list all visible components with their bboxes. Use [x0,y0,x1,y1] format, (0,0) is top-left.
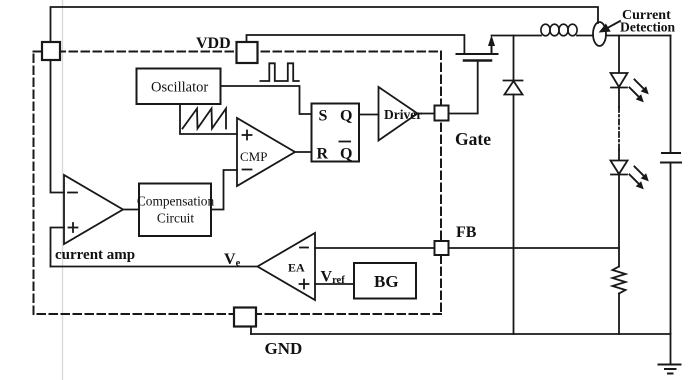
LED D3 [611,161,628,175]
resistor R1 (sense) [613,267,626,294]
wire output node down to capacitor [670,36,672,153]
LED D2 light arrows [630,80,649,102]
block BG bandgap [354,263,416,299]
wire compensation out to CMP minus [211,170,237,210]
svg-text:GND: GND [265,339,303,358]
svg-text:Compensation: Compensation [137,194,215,209]
op-amp EA (error amp) [258,233,316,300]
wire capacitor to ground rail [670,163,672,365]
sawtooth waveform [183,109,227,129]
wire current amp plus input [51,228,65,267]
svg-text:BG: BG [374,272,399,291]
wire EA minus to FB pad [315,247,435,249]
svg-text:CMP: CMP [240,149,267,164]
wire diode to ground rail [513,95,515,335]
wire sense pad to current amp minus input [51,60,65,193]
wire switch node [492,35,542,37]
wire VDD pad to MOSFET source [247,35,465,54]
wire MOSFET gate to Gate pad [449,61,478,114]
op-amp current amp [64,175,123,244]
current detection annotation arrow [607,21,621,29]
wire inductor to current sensor [577,35,593,37]
svg-text:VDD: VDD [196,35,231,52]
svg-text:Detection: Detection [620,20,676,35]
wire oscillator to sawtooth baseline to CMP plus [180,104,237,134]
wire CMP out to SR latch R input [295,151,312,153]
wire EA plus to BG [315,283,354,285]
LED D3 light arrows [630,167,649,189]
wire sensor to output node [606,35,671,37]
wire diode branch top [513,36,515,81]
wire LED string to FB node [618,175,620,267]
wire LED branch top [618,36,620,73]
svg-text:Q: Q [340,108,352,125]
IC boundary dashed box [34,52,442,315]
svg-text:FB: FB [456,224,477,241]
svg-text:Driver: Driver [384,107,422,122]
svg-text:current amp: current amp [55,247,135,263]
pad GND [234,308,256,327]
wire LED string dash-dot [618,88,620,108]
wire oscillator to SR latch S input [221,86,312,114]
svg-text:R: R [317,146,329,163]
node sense pad (top-left) [42,42,60,60]
svg-text:S: S [319,108,328,125]
transistor Q1 (power PMOS) [457,35,498,61]
capacitor C1 [661,153,681,163]
buffer driver [379,87,418,141]
wire ground rail [251,333,671,335]
svg-text:Gate: Gate [455,129,491,149]
pad VDD [237,42,258,63]
block SR latch [312,104,360,162]
svg-text:EA: EA [288,261,305,275]
svg-text:Oscillator: Oscillator [151,80,208,96]
wire Q out to driver [359,114,379,116]
inductor L1 [541,24,577,36]
pulse waveform [260,63,298,81]
wire current amp out to compensation [123,209,139,211]
wire Ve line (EA output to current amp) [51,266,258,268]
wire resistor to ground rail [618,294,620,335]
op-amp CMP [237,118,295,186]
pad Gate [435,106,449,121]
pad FB [435,241,449,255]
block compensation circuit [139,184,211,237]
wire top rail [51,7,599,42]
wire FB node to FB pad [449,247,620,249]
current detection sensor [593,22,606,46]
wire GND pad to ground rail [250,327,252,335]
ground [659,365,681,374]
svg-text:Q: Q [340,146,352,163]
block oscillator [137,69,221,105]
diode D1 (freewheeling) [504,81,523,95]
svg-text:Circuit: Circuit [157,211,194,226]
LED D2 [611,73,628,88]
wire driver to gate pad [418,113,435,115]
